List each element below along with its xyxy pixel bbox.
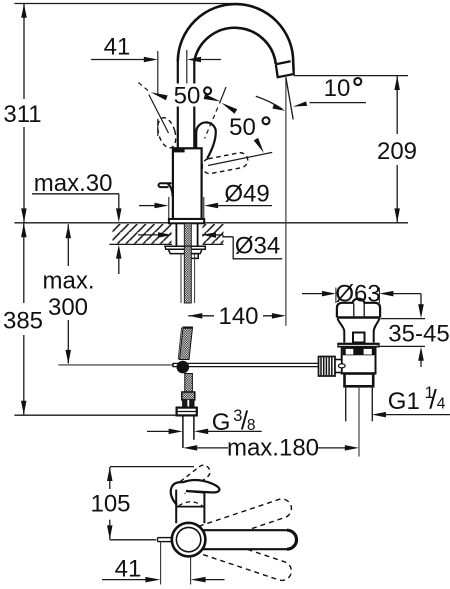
leader step to Ø34 label [223, 235, 233, 237]
faucet spout aerator [276, 61, 294, 77]
wire: deck bottom line left [109, 243, 172, 245]
dimension 35-45 reference lines [381, 318, 426, 320]
pop-up rod ball joint [177, 361, 188, 372]
lever solid axis line [220, 87, 227, 104]
drain stem square [353, 333, 365, 343]
swivel spout dashed down [199, 535, 294, 583]
dimension 41 bottom [160, 542, 162, 585]
wire: 105 bottom reference line [110, 539, 156, 541]
svg-text:300: 300 [48, 294, 88, 321]
label Ø34 frame [233, 237, 282, 259]
dimension G3/8 arrows [147, 430, 170, 432]
flexible hose upper (threaded) [180, 328, 193, 360]
lever solid position [196, 122, 216, 158]
dimension Ø34 arrows in deck [138, 234, 159, 236]
dimension 385 vertical [23, 223, 25, 303]
drain upper taper [338, 319, 345, 343]
drain plug cap [337, 299, 380, 318]
hose crimp sleeve [182, 392, 195, 400]
svg-text:50: 50 [229, 114, 256, 141]
dimension 105 vertical [107, 467, 113, 481]
rod knob connector [335, 360, 342, 373]
drain body [342, 348, 376, 374]
hose hex nut [177, 408, 197, 416]
lever angle left arrowhead [151, 92, 168, 100]
wire: deck bottom line right [203, 243, 224, 245]
svg-text:385: 385 [3, 308, 43, 335]
lever left axis line [149, 95, 169, 134]
lever dashed position right [201, 151, 249, 175]
angle arrows at solid lever axis [204, 94, 221, 102]
hose nut dark [183, 400, 194, 408]
svg-text:Ø49: Ø49 [224, 180, 269, 207]
swivel spout dashed up [199, 496, 294, 544]
dimension 311 vertical line [23, 4, 25, 100]
side view cartridge dashed arc [179, 502, 203, 506]
dimension Ø49 extension lines [168, 197, 170, 222]
wire: right lever axis line [208, 152, 272, 165]
svg-text:50: 50 [174, 83, 201, 110]
svg-text:140: 140 [218, 303, 258, 330]
dimension max.180 [183, 445, 197, 451]
side lever handle on left of body [159, 183, 172, 187]
rod pivot detail [338, 364, 345, 368]
dimension Ø63 [302, 293, 323, 295]
drain body lower block [345, 374, 374, 387]
svg-text:Ø34: Ø34 [235, 233, 280, 260]
threaded shank below washer [180, 254, 182, 303]
svg-text:8: 8 [247, 417, 256, 434]
wire: deck top line [14, 222, 408, 224]
deck hatching left [113, 224, 172, 244]
svg-text:311: 311 [3, 101, 41, 128]
deck hatching right [203, 224, 224, 244]
svg-text:35-45: 35-45 [388, 321, 449, 348]
G3/8 threaded end pipe [182, 415, 184, 448]
svg-text:41: 41 [104, 34, 131, 61]
pop-up rod guide block [191, 254, 199, 259]
lever thick mark on body top [173, 149, 185, 153]
dimension 10 deg leader line [310, 102, 367, 104]
dimension 209 vertical line [396, 76, 398, 134]
dimension 140 leader [188, 313, 202, 319]
side view lever solid [171, 480, 220, 505]
drain tailpipe G1 1/4 [345, 386, 347, 421]
wire: 105 top reference line [110, 466, 194, 468]
lever angle left leg dashed tail [139, 83, 149, 92]
wire: spout outlet 10 deg tilted axis [286, 78, 293, 120]
spout solid top view [202, 530, 297, 549]
svg-text:4: 4 [437, 395, 446, 412]
wire: rod reference line to left [58, 364, 173, 366]
pop-up rod horizontal [173, 362, 319, 364]
swivel rings [172, 523, 206, 557]
lever pin left [158, 537, 173, 539]
side view lever dashed raised [175, 463, 212, 496]
dimension max.300 vertical [66, 224, 72, 238]
faucet spout inner contour [194, 28, 275, 64]
leader below deck for max.30 [116, 245, 122, 259]
side view body [175, 490, 177, 524]
flexible hose lower (threaded) [185, 374, 193, 393]
faucet base flange [169, 219, 204, 223]
wire: spout tube left line [177, 61, 179, 84]
wire: spout tube right line [193, 61, 195, 84]
wire: drain centerline [358, 386, 360, 456]
svg-text:G1: G1 [388, 388, 420, 415]
faucet spout outer contour [178, 4, 294, 70]
svg-text:max.30: max.30 [34, 170, 113, 197]
wire: 385 bottom reference line [14, 414, 176, 416]
svg-text:G: G [212, 409, 231, 436]
mounting washer below deck [165, 246, 205, 249]
svg-text:10: 10 [324, 75, 351, 102]
drain flange band [337, 343, 379, 348]
lever dashed position left [155, 116, 179, 150]
wire: spout outlet vertical axis [285, 77, 287, 326]
dimension Ø49 arrows [139, 205, 155, 207]
wire: extension line at spout tube center [186, 50, 188, 84]
svg-text:41: 41 [115, 555, 142, 582]
faucet body [173, 148, 202, 219]
svg-text:max.180: max.180 [227, 434, 319, 461]
dimension 209 top reference line [294, 75, 408, 77]
dimension 35-45 arrows [420, 294, 422, 305]
faucet shank sleeve through deck [175, 223, 177, 246]
pop-up rod knurled knob [319, 357, 336, 377]
lever angle right arrowhead [254, 138, 264, 153]
svg-text:105: 105 [90, 491, 130, 518]
svg-text:max.: max. [42, 267, 94, 294]
svg-text:209: 209 [377, 138, 417, 165]
wire: top reference line (spout apex) [14, 3, 233, 5]
dimension 10 deg arc with arrowhead [256, 96, 283, 109]
faucet threaded shank in deck [184, 223, 191, 246]
mounting nut [168, 249, 202, 253]
dimension G1 1/4 leader [372, 412, 386, 418]
